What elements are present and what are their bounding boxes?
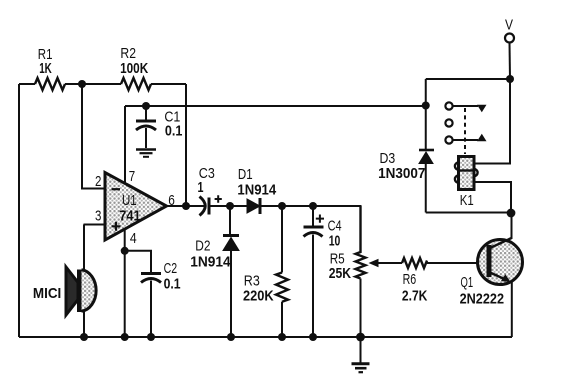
node: C4 junction top	[309, 202, 317, 210]
wire: coil bottom terminal to collector junction	[474, 182, 511, 213]
capacitor C1	[136, 106, 182, 148]
node: feedback/output junction	[182, 202, 190, 210]
node: junction R1/R2/pin2	[78, 80, 86, 88]
wire: collector junction to D3	[426, 212, 511, 214]
resistor R6 2.7K	[402, 258, 487, 305]
wire: output pin6	[167, 205, 206, 207]
node: R5 bottom / ground junction	[356, 333, 365, 342]
node: D2 branch junction	[226, 202, 234, 210]
capacitor C3	[198, 166, 222, 216]
diode D3 1N3007	[378, 79, 434, 213]
svg-text:R6: R6	[403, 272, 417, 288]
terminal V	[505, 17, 514, 79]
svg-text:10: 10	[329, 233, 341, 249]
wire: R1 to R2	[65, 83, 121, 85]
node: collector junction	[507, 209, 516, 218]
microphone MIC1	[33, 267, 96, 315]
svg-text:220K: 220K	[243, 289, 274, 305]
node: pin4 bottom junction	[121, 333, 129, 341]
resistor R2	[121, 78, 151, 90]
node: C2 bottom junction	[147, 333, 155, 341]
svg-text:D3: D3	[380, 151, 396, 167]
ground under C1	[136, 150, 156, 157]
op-amp U1 741	[105, 173, 167, 241]
capacitor C4 10	[304, 206, 342, 337]
svg-text:R5: R5	[330, 251, 345, 267]
wire: emitter down	[511, 281, 513, 337]
svg-text:V: V	[505, 17, 513, 33]
svg-text:Q1: Q1	[461, 275, 474, 291]
wire: D1 to R5 corner	[260, 206, 361, 250]
transistor Q1 2N2222	[460, 238, 523, 307]
node: D2 bottom junction	[227, 333, 235, 341]
svg-text:1N914: 1N914	[190, 254, 231, 270]
node: R3 bottom junction	[278, 333, 286, 341]
wiper arrow	[376, 262, 402, 264]
pin 7 wire	[124, 106, 126, 184]
wire: pin3 down to microphone	[83, 225, 85, 271]
svg-text:25K: 25K	[329, 266, 352, 282]
pin 4 wire	[124, 230, 126, 338]
svg-text:0.1: 0.1	[165, 124, 183, 140]
svg-text:C4: C4	[328, 219, 342, 235]
svg-text:100K: 100K	[120, 61, 148, 77]
svg-text:R3: R3	[244, 274, 260, 290]
potentiometer R5 25K	[329, 206, 402, 337]
diode D2 1N914 vertical	[190, 206, 239, 337]
svg-text:R2: R2	[120, 46, 136, 62]
svg-text:2N2222: 2N2222	[460, 291, 504, 307]
wire: junction down to pin2	[82, 84, 105, 189]
svg-text:1N3007: 1N3007	[378, 166, 425, 182]
wire: C3 to D1	[210, 205, 247, 207]
wire: microphone to bottom rail	[83, 310, 85, 337]
svg-text:U1: U1	[122, 193, 137, 209]
wire: left vertical rail	[18, 84, 20, 337]
node: C4 bottom junction	[309, 333, 317, 341]
svg-text:2.7K: 2.7K	[402, 289, 428, 305]
svg-text:7: 7	[129, 169, 135, 185]
wire: V+ rail from pin7 to relay branch	[125, 105, 426, 107]
svg-text:741: 741	[119, 208, 140, 224]
svg-text:3: 3	[95, 209, 101, 225]
svg-text:1N914: 1N914	[237, 183, 277, 199]
svg-text:0.1: 0.1	[164, 277, 181, 293]
diode D1 1N914	[237, 167, 277, 214]
svg-text:C2: C2	[164, 261, 178, 277]
svg-text:2: 2	[95, 174, 101, 190]
ground main	[352, 337, 370, 372]
node: mic bottom junction	[80, 333, 88, 341]
svg-text:4: 4	[130, 231, 137, 247]
svg-text:MICI: MICI	[33, 286, 61, 302]
svg-text:K1: K1	[460, 193, 474, 209]
wire: bottom ground rail	[19, 336, 512, 338]
wire: feedback vertical to output	[185, 84, 187, 206]
wire: top segment left of R1	[19, 83, 35, 85]
wire: pin3 horizontal	[84, 224, 106, 226]
svg-text:D2: D2	[195, 239, 210, 255]
capacitor C2 0.1	[125, 251, 181, 337]
svg-text:D1: D1	[238, 167, 253, 183]
wire: relay top edge	[426, 78, 510, 80]
wire: right edge down to coil	[474, 79, 510, 164]
wire: collector up	[511, 213, 513, 239]
relay K1 coil	[455, 157, 478, 209]
resistor R3 220K	[243, 206, 288, 337]
node: C1 junction	[142, 102, 150, 110]
wire: R2 right to feedback corner	[151, 83, 186, 85]
node: V+ rail to relay branch junction	[422, 102, 430, 110]
resistor R1	[35, 78, 65, 90]
svg-text:1K: 1K	[39, 61, 52, 77]
svg-text:1: 1	[198, 180, 204, 196]
relay K1 contacts	[445, 102, 486, 154]
node: V junction	[506, 75, 514, 83]
node: R3 junction top	[278, 202, 286, 210]
node: pin4 junction to C2	[121, 247, 129, 255]
